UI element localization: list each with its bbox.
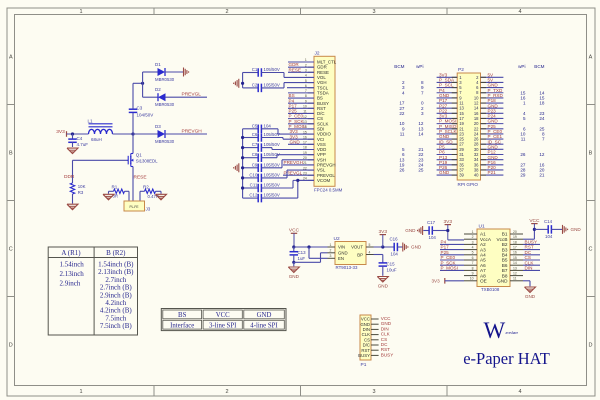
resistor R1 <box>109 184 130 198</box>
svg-text:Si1308EDL: Si1308EDL <box>136 159 158 164</box>
svg-text:BCM: BCM <box>394 64 404 69</box>
wire P2 pin 37 + net label P26 <box>437 165 458 170</box>
node VCC C13 <box>292 245 295 248</box>
wire P2 pin 36 + net label P16 <box>481 160 504 165</box>
wire P1 pin 8 + net label BUSY <box>371 352 393 357</box>
svg-text:3: 3 <box>372 389 375 395</box>
table display sizes A(R1) B(R2) <box>48 247 137 335</box>
svg-text:GND: GND <box>439 170 450 175</box>
wire P2 pin 22 + net label P25 <box>481 124 504 129</box>
wire U1 A3 + net label P17 <box>440 245 464 250</box>
svg-text:16: 16 <box>513 251 517 255</box>
svg-text:GND: GND <box>338 251 348 256</box>
svg-text:105/50V: 105/50V <box>264 132 280 137</box>
svg-text:5: 5 <box>369 243 371 247</box>
wire P2 pin 9 + net label GND <box>437 93 458 98</box>
svg-text:MBR0530: MBR0530 <box>155 77 175 82</box>
svg-text:29: 29 <box>520 173 526 178</box>
svg-text:2: 2 <box>472 235 474 239</box>
power arrow GND (C17) <box>405 226 422 235</box>
wire P2 pin 34 + net label GND <box>481 155 504 160</box>
wire Q1 source to J3 <box>132 167 134 202</box>
wire P2 pin 17 + net label 3V3 <box>437 114 458 119</box>
wire P2 pin 26 + net label P_CE1 <box>481 134 504 139</box>
wire C10 to J2 pin 22 <box>287 170 314 178</box>
BCM wPi reference columns <box>394 64 545 178</box>
svg-text:4: 4 <box>472 246 474 250</box>
svg-text:BCM: BCM <box>534 64 544 69</box>
svg-text:C: C <box>9 247 13 253</box>
net label 3V3 (VDDIO) <box>290 129 299 134</box>
capacitor C14 <box>544 219 562 239</box>
power arrow (C5-C12 common) <box>234 163 239 172</box>
svg-text:RESE: RESE <box>289 67 302 72</box>
svg-text:B (R2): B (R2) <box>106 249 126 257</box>
svg-text:18: 18 <box>513 240 517 244</box>
svg-text:J3: J3 <box>146 207 151 212</box>
svg-text:105/50V: 105/50V <box>264 183 280 188</box>
svg-text:8: 8 <box>472 266 474 270</box>
svg-text:14: 14 <box>513 261 517 265</box>
svg-text:12: 12 <box>513 272 517 276</box>
wire P2 pin 27 + net label ID_SD <box>437 139 458 144</box>
node diode branch <box>141 82 144 85</box>
wire BP to C15 <box>374 255 383 264</box>
wire U1 B2 + net label BUSY <box>523 240 540 245</box>
wire P1 pin 7 + net label RST <box>371 347 390 352</box>
wire D2 to PREVGL <box>166 96 208 98</box>
capacitor C1 <box>243 67 284 77</box>
svg-text:24: 24 <box>539 116 545 121</box>
wire J2 PREVGL + net label PREVGL <box>283 170 314 175</box>
svg-text:C13: C13 <box>298 250 307 255</box>
diode D3 <box>155 124 175 144</box>
wire P1 pin 6 + net label DC <box>371 342 388 347</box>
node boost input <box>71 132 74 135</box>
svg-text:3V3: 3V3 <box>379 229 388 235</box>
svg-text:3: 3 <box>330 254 332 258</box>
svg-text:3-line SPI: 3-line SPI <box>209 322 237 329</box>
jumper J3 <box>124 201 151 212</box>
svg-text:7: 7 <box>542 137 545 142</box>
power port VCC (regulator input) <box>289 228 300 248</box>
wire P2 pin 10 + net label P_RXD <box>481 93 504 98</box>
wire P2 pin 5 + net label P_SCL <box>437 83 458 88</box>
svg-text:GND: GND <box>497 279 508 284</box>
svg-text:TXB0108: TXB0108 <box>481 287 500 292</box>
power port 3V3 (U1 VccA) <box>444 219 453 240</box>
svg-text:RT9013-33: RT9013-33 <box>336 265 358 270</box>
wire J2 GDR + net label GDR <box>288 62 314 67</box>
svg-text:GND: GND <box>289 274 300 279</box>
wire C1-C2 bus <box>241 73 244 88</box>
transistor Q1 <box>127 152 158 166</box>
wire P2 pin 14 + net label GND <box>481 103 504 108</box>
svg-text:D1: D1 <box>155 62 161 67</box>
svg-text:MBR0530: MBR0530 <box>155 139 175 144</box>
svg-text:aveshare: aveshare <box>506 331 519 335</box>
svg-text:C1: C1 <box>252 67 258 72</box>
svg-text:5: 5 <box>472 251 474 255</box>
power port 3V3 (boost input) <box>56 129 66 137</box>
wire D3 to PREVGH <box>165 133 207 135</box>
capacitor C7 <box>243 142 280 152</box>
wire P2 pin 30 + net label GND <box>481 144 504 149</box>
node 3V3 C17 <box>446 229 449 232</box>
svg-text:40: 40 <box>474 173 479 178</box>
capacitor C12 <box>243 193 298 203</box>
svg-text:W: W <box>484 318 506 343</box>
svg-text:C3: C3 <box>137 106 143 111</box>
svg-text:17: 17 <box>513 246 517 250</box>
wire J2 RST + net label P17 <box>288 103 314 108</box>
svg-text:VIN: VIN <box>338 245 345 250</box>
svg-text:C7: C7 <box>252 142 258 147</box>
wire J2 TSDA <box>288 92 314 94</box>
svg-text:GND: GND <box>290 139 301 144</box>
svg-text:P2: P2 <box>458 67 464 73</box>
svg-text:BUSY: BUSY <box>381 352 394 357</box>
svg-text:P21: P21 <box>488 170 497 175</box>
svg-text:R2: R2 <box>143 184 149 189</box>
capacitor C3 <box>129 106 154 118</box>
wire to D2 <box>143 83 158 97</box>
svg-text:Interface: Interface <box>170 322 194 329</box>
capacitor C4 <box>68 134 88 147</box>
diode D2 <box>155 87 175 107</box>
wire P2 pin 39 + net label GND <box>437 170 458 175</box>
svg-text:18: 18 <box>539 101 545 106</box>
svg-text:25: 25 <box>418 168 424 173</box>
svg-text:9: 9 <box>472 272 474 276</box>
wire J2 BS + net label BS <box>288 93 314 98</box>
svg-text:14: 14 <box>418 132 424 137</box>
wire C9 to J2 pin 20 <box>282 160 314 168</box>
power arrow GND (C16) <box>403 243 422 252</box>
svg-text:104: 104 <box>545 234 553 239</box>
svg-text:4: 4 <box>518 389 521 395</box>
wire J2 BUSY + net label P4 <box>288 98 314 103</box>
svg-text:P1: P1 <box>361 362 367 368</box>
svg-text:FPC24 0.5MM: FPC24 0.5MM <box>314 187 343 192</box>
svg-text:C4: C4 <box>77 136 83 141</box>
node C13 gnd <box>292 261 295 264</box>
wire 3V3 to L1 <box>67 133 89 135</box>
wire P2 pin 28 + net label ID_SC <box>481 139 504 144</box>
ground (R3) <box>67 204 78 210</box>
svg-text:C17: C17 <box>427 220 436 225</box>
svg-text:A (R1): A (R1) <box>61 249 81 257</box>
net label PREVGH <box>182 128 203 134</box>
wire P2 pin 33 + net label P13 <box>437 155 458 160</box>
wire P2 pin 24 + net label P_CE0 <box>481 129 504 134</box>
wire C5 to J2 pin 15 <box>278 129 314 134</box>
svg-text:A: A <box>589 55 593 61</box>
svg-text:4-line SPI: 4-line SPI <box>250 322 278 329</box>
wire EN to VCC <box>309 247 328 258</box>
svg-text:B: B <box>589 151 593 157</box>
wire VCC to C14 <box>534 228 548 230</box>
wire J2 pin1 <box>288 61 314 63</box>
svg-text:PREVGH: PREVGH <box>182 128 203 134</box>
svg-text:15: 15 <box>513 256 517 260</box>
svg-text:3V3: 3V3 <box>444 219 453 225</box>
svg-text:7.5inch (B): 7.5inch (B) <box>100 322 133 330</box>
wire P2 pin 4 + net label 5V <box>481 78 504 83</box>
wire P2 pin 23 + net label P_SCLK <box>437 129 458 134</box>
wire U2 GND to C13 gnd <box>294 253 328 262</box>
capacitor C16 <box>390 237 403 257</box>
svg-text:C5: C5 <box>252 123 258 128</box>
wire C1 to J2 VOL <box>284 73 314 78</box>
connector J2 FPC246 0.5MM <box>303 51 343 193</box>
svg-text:11: 11 <box>513 277 517 281</box>
svg-text:1: 1 <box>79 9 82 15</box>
wire P1 pin 4 + net label CLK <box>371 332 391 337</box>
svg-text:3V3: 3V3 <box>56 129 65 135</box>
power arrow GND (C14) <box>563 225 582 234</box>
net label PREVGL <box>182 92 202 98</box>
wire P2 pin 11 + net label P17 <box>437 98 458 103</box>
svg-text:20: 20 <box>513 230 517 234</box>
wire C2 to J2 VGH <box>284 83 314 88</box>
svg-text:VCOM: VCOM <box>317 178 331 183</box>
wire VOUT to 3V3 <box>374 246 395 248</box>
diode D1 <box>155 62 175 82</box>
ground (C15) <box>377 277 388 289</box>
svg-text:1: 1 <box>523 101 526 106</box>
wire J2 RESE + net label RESE <box>288 67 314 72</box>
wire Q1 gate <box>73 160 128 183</box>
wire U1 B4 + net label DC <box>523 250 540 255</box>
wire P2 pin 25 + net label GND <box>437 134 458 139</box>
net label 3V3 (VCI) <box>290 134 299 139</box>
wire U1 A6 + net label P_SCK <box>440 260 464 265</box>
svg-text:1: 1 <box>330 243 332 247</box>
wire switch node to D3 <box>133 133 158 135</box>
wire J2 VSS + net label GND <box>288 139 314 144</box>
svg-text:DDR: DDR <box>64 174 75 180</box>
svg-text:10: 10 <box>470 277 474 281</box>
node switch <box>131 132 134 135</box>
svg-text:1uF: 1uF <box>298 256 306 261</box>
svg-text:2: 2 <box>225 9 228 15</box>
wire P2 pin 1 + net label 3V3 <box>437 72 458 77</box>
wire U1 A2 + net label P4 <box>440 240 464 245</box>
wire P2 pin 8 + net label P_TXD <box>481 88 504 93</box>
power port 3V3 (U1 OE) <box>432 278 465 284</box>
svg-text:68uH: 68uH <box>91 137 102 142</box>
wire P1 pin 2 + net label GND <box>371 321 392 326</box>
svg-text:4: 4 <box>518 9 521 15</box>
svg-text:4: 4 <box>402 90 405 95</box>
wire U1 B5 + net label CS <box>523 255 540 260</box>
node VOUT <box>381 245 384 248</box>
svg-text:C15: C15 <box>387 262 396 267</box>
svg-text:104: 104 <box>264 123 272 128</box>
svg-text:BS: BS <box>178 312 187 319</box>
svg-text:wPi: wPi <box>416 64 423 69</box>
wire P2 pin 32 + net label P12 <box>481 150 504 155</box>
wire P2 pin 35 + net label P19 <box>437 160 458 165</box>
ground (C13) <box>288 267 299 279</box>
svg-text:GND: GND <box>257 312 272 319</box>
svg-text:21: 21 <box>539 173 545 178</box>
svg-text:39: 39 <box>459 173 464 178</box>
svg-text:3: 3 <box>372 9 375 15</box>
wire C5-C12 bus <box>241 129 244 198</box>
svg-text:PL-FE: PL-FE <box>129 205 138 209</box>
svg-text:1.54inch: 1.54inch <box>60 261 85 269</box>
wire U1 A7 + net label P_MOSI <box>440 266 464 271</box>
ground (R1) <box>103 194 114 200</box>
wire P2 pin 18 + net label P24 <box>481 114 504 119</box>
wire C7 to J2 pin 18 <box>272 148 314 150</box>
wire P2 pin 7 + net label P4 <box>437 88 458 93</box>
wire P2 pin 20 + net label GND <box>481 119 504 124</box>
wire C13 to ground <box>293 262 295 266</box>
svg-text:PREVGH: PREVGH <box>284 160 303 165</box>
svg-text:J2: J2 <box>315 51 320 57</box>
svg-text:7: 7 <box>421 90 424 95</box>
wire P2 pin 40 + net label P21 <box>481 170 504 175</box>
svg-text:1: 1 <box>472 230 474 234</box>
svg-text:105/50V: 105/50V <box>264 82 280 87</box>
capacitor C11 <box>243 183 293 193</box>
svg-text:D3: D3 <box>155 124 161 129</box>
wire P2 pin 21 + net label P_MISO <box>437 124 458 129</box>
capacitor C17 <box>423 220 448 240</box>
svg-text:26: 26 <box>520 152 526 157</box>
svg-text:A: A <box>9 55 13 61</box>
svg-text:GND: GND <box>405 228 416 233</box>
wire P2 pin 12 + net label P18 <box>481 98 504 103</box>
wire VCC to U2 VIN <box>294 246 328 248</box>
wire J2 TSCL <box>287 87 314 89</box>
svg-text:13: 13 <box>513 266 517 270</box>
svg-text:PREVGL: PREVGL <box>182 92 202 98</box>
title e-Paper HAT <box>463 349 550 368</box>
ground (R2) <box>156 194 167 200</box>
svg-text:C6: C6 <box>252 132 258 137</box>
wire P1 pin 1 + net label VCC <box>371 316 391 321</box>
connector P1 <box>358 315 371 368</box>
capacitor C9 <box>243 162 282 172</box>
wire C3 to diode branch <box>133 83 143 109</box>
svg-text:C: C <box>589 247 593 253</box>
connector P2 RPI GPIO <box>457 67 480 187</box>
wire C8 to J2 pin 19 <box>277 155 314 158</box>
level shifter U1 <box>464 224 523 292</box>
wire P2 pin 13 + net label P27 <box>437 103 458 108</box>
power port VCC (U1 VccB) <box>529 218 540 230</box>
svg-text:10uF: 10uF <box>387 268 397 273</box>
wire D1 to power arrow <box>165 71 184 73</box>
node EN tap <box>307 245 310 248</box>
svg-text:P_MOSI: P_MOSI <box>441 266 458 271</box>
svg-text:1: 1 <box>79 389 82 395</box>
wire P2 pin 29 + net label P5 <box>437 144 458 149</box>
svg-text:GND: GND <box>571 227 582 232</box>
wire R1 left to ground <box>108 191 110 194</box>
svg-text:22: 22 <box>399 111 405 116</box>
svg-text:VCC: VCC <box>216 312 230 319</box>
svg-text:4.7uF: 4.7uF <box>77 142 89 147</box>
svg-text:Q1: Q1 <box>136 152 143 157</box>
svg-text:3: 3 <box>421 111 424 116</box>
svg-text:105/50V: 105/50V <box>264 162 280 167</box>
wire P2 pin 2 + net label 5V <box>481 72 504 77</box>
svg-text:105/50V: 105/50V <box>264 172 280 177</box>
svg-text:C9: C9 <box>252 162 258 167</box>
svg-text:DIN: DIN <box>525 266 533 271</box>
svg-text:2: 2 <box>225 389 228 395</box>
svg-text:e-Paper HAT: e-Paper HAT <box>463 349 550 368</box>
wire P2 pin 15 + net label P22 <box>437 108 458 113</box>
wire J2 PREVGH + net label PREVGH <box>283 160 314 165</box>
wire U1 A4 + net label P25 <box>440 250 464 255</box>
resistor R3 <box>70 183 85 195</box>
wire P2 pin 38 + net label P20 <box>481 165 504 170</box>
wire P2 pin 16 + net label P23 <box>481 108 504 113</box>
wire R1 to J3 <box>128 191 130 201</box>
logo Waveshare <box>484 318 519 343</box>
svg-text:GND: GND <box>378 284 389 289</box>
wire P1 pin 3 + net label DIN <box>371 326 389 331</box>
capacitor C2 <box>243 82 284 92</box>
svg-text:VOUT: VOUT <box>351 245 363 250</box>
svg-text:2: 2 <box>330 249 332 253</box>
svg-text:R3: R3 <box>78 190 84 195</box>
svg-text:104: 104 <box>391 251 399 256</box>
svg-text:7: 7 <box>472 261 474 265</box>
svg-text:12: 12 <box>539 152 545 157</box>
capacitor C15 <box>379 262 397 276</box>
svg-text:6: 6 <box>472 256 474 260</box>
wire J2 SCLK + net label P_SCK <box>288 119 314 124</box>
svg-text:D: D <box>9 343 13 349</box>
svg-text:OE: OE <box>480 279 487 284</box>
wire switch node up to C3 <box>132 112 134 134</box>
svg-text:RPI GPIO: RPI GPIO <box>458 182 479 187</box>
wire U1 B3 + net label RST <box>523 245 540 250</box>
svg-text:105/50V: 105/50V <box>264 193 280 198</box>
resistor R2 <box>140 184 161 198</box>
wire J2 D/C + net label P25 <box>288 109 314 114</box>
node VCC C14 <box>533 228 536 231</box>
capacitor C8 <box>243 152 280 162</box>
svg-text:C14: C14 <box>544 219 553 224</box>
svg-text:3: 3 <box>472 240 474 244</box>
svg-text:VCC: VCC <box>289 228 300 234</box>
svg-text:C12: C12 <box>249 193 258 198</box>
svg-text:RESE: RESE <box>134 175 147 181</box>
svg-text:2.13inch: 2.13inch <box>60 270 85 278</box>
svg-text:3V3: 3V3 <box>432 279 441 284</box>
ground (C4) <box>67 148 78 154</box>
svg-text:105/50V: 105/50V <box>264 142 280 147</box>
svg-text:GND: GND <box>411 245 422 250</box>
wire P1 pin 5 + net label CS <box>371 337 387 342</box>
net label RESE <box>134 175 147 181</box>
power port 3V3 (regulator output) <box>379 229 388 247</box>
table BS interface <box>161 309 286 331</box>
wire P2 pin 31 + net label P6 <box>437 150 458 155</box>
svg-text:C10: C10 <box>249 172 258 177</box>
wire C11 to J2 pin 24 <box>293 180 314 188</box>
node C11 C12 join <box>296 179 299 182</box>
capacitor C6 <box>243 132 283 142</box>
